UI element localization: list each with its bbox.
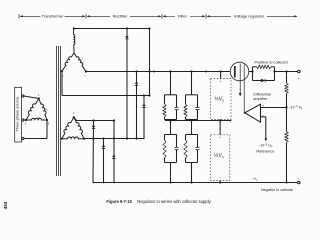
tube cathode lead [243, 65, 245, 113]
node 3 (delta bottom-right) [46, 119, 48, 121]
rectifier diode D3 [142, 105, 145, 108]
filter R-C unit 1 (top-left) [163, 70, 179, 121]
node 5 (wye left) [61, 70, 63, 72]
junction drop/top-rail [148, 70, 150, 72]
wire: top phase from wye node 4 [74, 28, 150, 30]
svg-text:Figure 9-7-10: Figure 9-7-10 [106, 199, 132, 204]
rectifier diode D1 wire [126, 29, 128, 139]
diode D7 (combo bottom path) [252, 72, 254, 81]
node 9 (delta-2 bottom-right) [83, 138, 85, 140]
svg-text:Negative to cathode: Negative to cathode [261, 188, 293, 192]
rectifier diode D5 [102, 146, 105, 149]
rectifier diode D5 wire [103, 139, 105, 183]
dimension arrow: Transformer section [19, 14, 85, 19]
junction on positive rail [205, 71, 207, 73]
svg-text:−: − [298, 177, 300, 181]
svg-text:Filter: Filter [178, 14, 188, 19]
node 7 (delta-2 apex) [73, 116, 75, 118]
wire tube to combo [249, 71, 253, 73]
secondary winding b (wye left) [62, 53, 74, 71]
svg-text:Regulator in series with colle: Regulator in series with collector suppl… [137, 199, 211, 204]
dimension arrow: Voltage regulator section [206, 14, 297, 19]
junction third phase end [148, 94, 150, 96]
transformer primary winding 3 (delta bottom side) [26, 118, 47, 120]
secondary winding e (delta-2 right side) [74, 117, 84, 139]
wire: drop from top phase to positive rail [149, 29, 151, 96]
junction at op-amp output tip [244, 112, 246, 114]
rectifier diode D2 wire [136, 72, 138, 139]
resistor R2 (divider upper) [285, 83, 289, 94]
transformer primary winding 1 (delta left side) [26, 99, 39, 121]
node 4 (wye top) [73, 27, 75, 29]
reference terminal [264, 138, 267, 141]
negative rail [94, 182, 298, 184]
secondary winding a (wye top) [74, 31, 76, 53]
junction apex wire / D4 [92, 119, 94, 121]
junction D1 bottom [126, 137, 128, 139]
divider wire top [286, 72, 288, 84]
secondary winding d (delta-2 left side) [62, 117, 74, 139]
rectifier diode D6 [112, 156, 115, 159]
terminal A of source [22, 95, 24, 97]
terminal C of source [22, 137, 24, 139]
junction D5/negative rail [103, 182, 105, 184]
svg-text:+: + [219, 136, 221, 140]
rectifier diode D6 wire [113, 121, 115, 183]
svg-text:+: + [220, 80, 222, 84]
divider wire bottom [286, 143, 288, 183]
junction on top phase wire [126, 27, 128, 29]
junction D4/negative rail [93, 182, 95, 184]
dashed box: upper half output ½Vo [210, 70, 231, 121]
secondary winding c (wye right) [74, 53, 86, 72]
svg-text:amplifier: amplifier [253, 97, 268, 101]
svg-text:Three phase source: Three phase source [15, 97, 20, 132]
junction D2 bottom [135, 137, 137, 139]
negative output terminal [298, 181, 301, 184]
op-amp U1 (differential amplifier, points left) [245, 104, 261, 122]
junction D4 on common line [92, 137, 94, 139]
rectifier diode D4 wire [92, 121, 95, 183]
svg-text:Voltage regulator: Voltage regulator [234, 14, 265, 19]
dimension arrow: Filter section [162, 14, 205, 19]
wire from delta-2 apex [74, 117, 114, 120]
corner apex wire [113, 119, 115, 121]
divider wire middle [286, 94, 288, 132]
series regulator tube V1 (circle) [230, 62, 249, 81]
svg-text:Transformer: Transformer [42, 14, 64, 19]
wire source C to delta corner 3 [24, 138, 47, 140]
wire source B to delta corner 2 [24, 119, 26, 121]
dashed box: lower half output ½Vo [211, 119, 230, 183]
svg-text:+: + [262, 104, 264, 108]
dimension arrow: Rectifier section [86, 14, 161, 19]
tube anode bar [234, 66, 236, 78]
middle rail [165, 120, 231, 122]
filter R-C unit 4 (bottom-right) [184, 119, 200, 183]
middle rail end junction [230, 120, 232, 122]
rectifier diode D2 [135, 83, 138, 86]
upper rectifier common line [84, 138, 145, 140]
junction D2 top [135, 70, 137, 72]
wire: wye node 5 drop [61, 71, 63, 95]
wire source A to delta apex [24, 96, 39, 99]
svg-text:−: − [220, 115, 222, 119]
node 1 (delta apex) [38, 97, 40, 99]
filter R-C unit 2 (top-right) [184, 70, 200, 121]
resistor R1 (series combo top path) [252, 67, 254, 72]
rectifier diode D4 [92, 126, 95, 129]
wire combo to positive terminal [275, 71, 298, 73]
filter R-C unit 3 (bottom-left) [163, 119, 179, 183]
node 2 (delta bottom-left) [25, 119, 27, 121]
svg-text:453: 453 [3, 201, 8, 209]
positive rail from wye node 6 to regulator [86, 71, 230, 73]
transformer primary winding 2 (delta right side) [39, 99, 47, 121]
wire: third phase horizontal [62, 95, 150, 97]
svg-text:Reference: Reference [256, 148, 274, 153]
terminal B of source [22, 119, 24, 121]
svg-text:Rectifier: Rectifier [113, 14, 128, 19]
node 6 (wye right) [85, 70, 87, 72]
secondary winding f (delta-2 bottom side) [62, 137, 84, 139]
transformer core [56, 46, 58, 176]
three-phase source box [15, 87, 22, 142]
positive output terminal [298, 70, 301, 73]
svg-text:−: − [219, 176, 221, 180]
junction D3 top [143, 94, 145, 96]
resistor R3 (divider lower) [285, 132, 289, 143]
junction D5 top [102, 137, 104, 139]
rectifier diode D3 wire [143, 96, 145, 139]
divider tap junction [285, 106, 287, 108]
svg-text:Positive to collector: Positive to collector [255, 59, 289, 64]
rectifier diode D1 [125, 36, 128, 39]
node 8 (delta-2 bottom-left) [61, 138, 63, 140]
op-amp inverting input wire [261, 116, 266, 118]
op-amp noninverting input wire [261, 107, 287, 109]
tube grid lead [239, 64, 241, 95]
svg-text:Differential: Differential [253, 92, 271, 96]
junction D6/negative rail [113, 182, 115, 184]
svg-text:+: + [298, 77, 300, 81]
